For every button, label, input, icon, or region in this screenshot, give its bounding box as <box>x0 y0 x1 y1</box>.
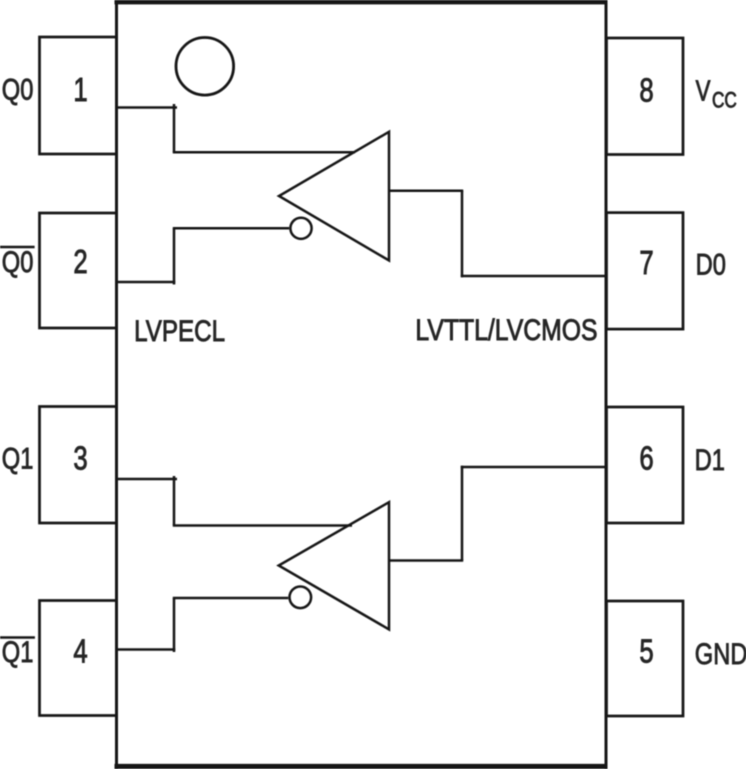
svg-text:3: 3 <box>73 441 87 478</box>
inversion bubble U1 <box>290 218 311 239</box>
svg-text:Q1: Q1 <box>2 635 34 668</box>
overline of Q1 label <box>0 636 35 639</box>
svg-text:VCC: VCC <box>696 76 737 113</box>
svg-text:Q1: Q1 <box>2 442 34 475</box>
pin box 1 <box>40 37 117 154</box>
IC body left edge <box>115 0 118 769</box>
pin 1 indicator circle <box>176 38 234 96</box>
op-amp buffer U1 <box>279 132 389 261</box>
IC body top edge <box>115 0 608 4</box>
svg-text:6: 6 <box>639 441 653 478</box>
pin box 4 <box>40 601 117 716</box>
wire pin7 D0 to U1 input <box>389 191 607 277</box>
wire pin2 to U1 bubble <box>115 228 289 284</box>
svg-text:D0: D0 <box>696 248 726 281</box>
svg-text:Q0: Q0 <box>2 73 34 106</box>
svg-text:7: 7 <box>639 245 653 282</box>
IC body bottom edge <box>115 764 608 769</box>
svg-text:LVPECL: LVPECL <box>134 315 225 348</box>
pin box 5 <box>607 601 684 716</box>
svg-text:LVTTL/LVCMOS: LVTTL/LVCMOS <box>415 313 597 347</box>
pin box 2 <box>40 213 117 328</box>
op-amp buffer U2 <box>279 502 389 629</box>
wire pin4 to U2 bubble <box>115 598 288 652</box>
IC body right edge <box>605 0 608 769</box>
svg-text:2: 2 <box>73 244 87 281</box>
svg-text:4: 4 <box>73 634 87 671</box>
svg-text:GND: GND <box>695 637 746 670</box>
wire pin3 to U2 output <box>115 476 352 526</box>
overline of Q0 label <box>0 246 35 249</box>
inversion bubble U2 <box>290 587 312 609</box>
pin box 6 <box>607 407 684 523</box>
svg-text:D1: D1 <box>695 443 725 476</box>
svg-text:8: 8 <box>639 73 653 110</box>
pin box 3 <box>40 407 117 524</box>
pin box 8 <box>607 38 684 155</box>
wire pin1 to U1 output <box>115 104 355 152</box>
svg-text:Q0: Q0 <box>2 245 34 278</box>
svg-text:5: 5 <box>639 634 653 671</box>
wire pin6 D1 to U2 input <box>389 466 607 561</box>
pin box 7 <box>607 213 684 330</box>
svg-text:1: 1 <box>73 72 87 109</box>
